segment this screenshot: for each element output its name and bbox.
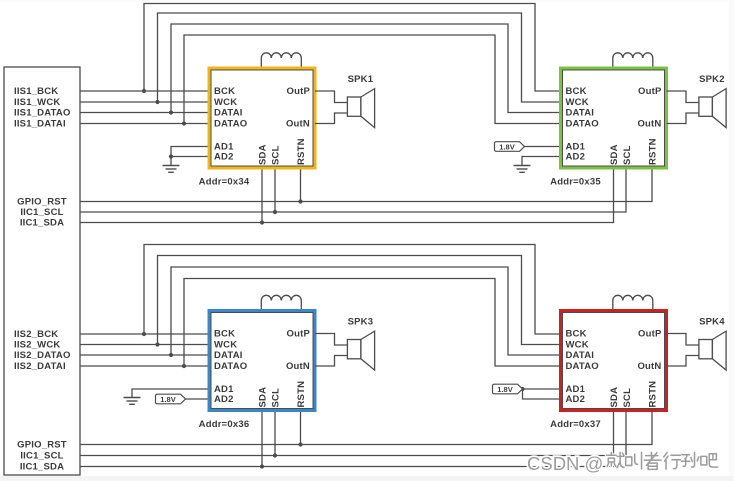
- power flag 1.8V (U2 AD1): [495, 142, 525, 152]
- wire AD2 of U2 to ground: [522, 157, 561, 166]
- wire IIS2_BCK net: [80, 333, 209, 335]
- svg-text:DATAO: DATAO: [566, 119, 599, 130]
- speaker SPK2: [699, 89, 726, 128]
- svg-text:AD2: AD2: [566, 152, 586, 163]
- power flag 1.8V (U4 AD1/AD2): [493, 384, 523, 394]
- wire OutN of U3 to SPK3: [315, 356, 347, 367]
- svg-text:BCK: BCK: [214, 86, 235, 97]
- amplifier chip U2: [563, 70, 665, 166]
- wire OutP of U4 to SPK4: [667, 334, 699, 346]
- svg-text:SCL: SCL: [622, 145, 633, 165]
- svg-text:IIS2_DATAO: IIS2_DATAO: [14, 350, 71, 361]
- speaker SPK4: [699, 331, 726, 370]
- pin labels of U1: [214, 86, 310, 165]
- junction node IIS1_BCK: [142, 89, 146, 93]
- wire OutN of U2 to SPK2: [667, 113, 699, 124]
- junction node IIC1_SCL: [273, 453, 277, 457]
- svg-text:RSTN: RSTN: [296, 138, 307, 165]
- inductor L3 on U3 OutP/OutN supply: [261, 295, 301, 310]
- pin labels of U4: [566, 329, 662, 408]
- junction node IIS1_WCK: [155, 100, 159, 104]
- svg-text:IIC1_SCL: IIC1_SCL: [20, 207, 63, 218]
- pin labels of U2: [566, 86, 662, 165]
- svg-text:AD2: AD2: [214, 152, 234, 163]
- ground symbol (U3 AD1): [124, 398, 141, 405]
- junction node IIC1_SDA: [260, 464, 264, 468]
- svg-text:OutP: OutP: [638, 86, 662, 97]
- svg-text:OutN: OutN: [286, 361, 310, 372]
- inductor L4 on U4 OutP/OutN supply: [613, 295, 653, 310]
- wire SDA drop of left chip to IIC1_SDA: [261, 411, 263, 467]
- svg-text:SDA: SDA: [258, 387, 269, 408]
- junction node IIS2_DATAI: [182, 364, 186, 368]
- wire AD1/AD2 of U4 to 1.8V: [523, 389, 561, 399]
- host connector box J1: [4, 67, 80, 475]
- wire RSTN drop of left chip to GPIO_RST: [300, 168, 302, 202]
- svg-text:WCK: WCK: [566, 340, 589, 351]
- svg-text:GPIO_RST: GPIO_RST: [17, 197, 67, 208]
- svg-text:DATAI: DATAI: [214, 350, 243, 361]
- wire OutP of U2 to SPK2: [667, 91, 699, 103]
- svg-text:SPK4: SPK4: [699, 317, 725, 328]
- svg-text:DATAI: DATAI: [214, 108, 243, 119]
- wire IIS2_DATAI branch to right chip: [184, 279, 561, 367]
- svg-text:WCK: WCK: [566, 97, 589, 108]
- svg-text:IIS1_WCK: IIS1_WCK: [14, 97, 60, 108]
- junction node GPIO_RST: [298, 199, 302, 203]
- junction node IIS1_DATAI: [182, 121, 186, 125]
- wire OutN of U4 to SPK4: [667, 356, 699, 367]
- ground symbol (U1 AD pins): [163, 166, 180, 173]
- svg-text:IIS1_DATAO: IIS1_DATAO: [14, 108, 71, 119]
- svg-text:OutP: OutP: [638, 329, 662, 340]
- wire AD1 of U2 to 1.8V: [525, 146, 561, 148]
- svg-text:IIS2_WCK: IIS2_WCK: [14, 340, 60, 351]
- svg-text:BCK: BCK: [214, 329, 235, 340]
- wire IIS1_DATAO net: [80, 112, 209, 114]
- wire IIS1_WCK branch to right chip: [158, 13, 561, 102]
- svg-text:OutP: OutP: [287, 86, 311, 97]
- svg-text:RSTN: RSTN: [648, 138, 659, 165]
- svg-text:DATAI: DATAI: [566, 108, 595, 119]
- wire IIS1_BCK branch to right chip: [144, 4, 561, 92]
- speaker SPK1: [347, 89, 374, 128]
- svg-text:SPK1: SPK1: [348, 74, 374, 85]
- svg-text:Addr=0x35: Addr=0x35: [550, 177, 601, 188]
- svg-text:1.8V: 1.8V: [160, 395, 175, 404]
- svg-text:IIC1_SCL: IIC1_SCL: [20, 451, 63, 462]
- svg-text:Addr=0x34: Addr=0x34: [199, 177, 250, 188]
- junction node IIS2_WCK: [155, 342, 159, 346]
- svg-text:SCL: SCL: [271, 145, 282, 165]
- wire SDA drop of left chip to IIC1_SDA: [261, 168, 263, 223]
- svg-text:Addr=0x37: Addr=0x37: [550, 419, 601, 430]
- svg-text:WCK: WCK: [214, 340, 237, 351]
- inductor L1 on U1 OutP/OutN supply: [261, 53, 301, 68]
- svg-text:OutP: OutP: [287, 329, 311, 340]
- power flag 1.8V (U3 AD2): [156, 394, 186, 404]
- junction U1 AD2: [169, 154, 173, 158]
- svg-text:SDA: SDA: [258, 144, 269, 165]
- svg-text:DATAO: DATAO: [566, 361, 599, 372]
- svg-text:IIS1_DATAI: IIS1_DATAI: [14, 119, 66, 130]
- wire OutN of U1 to SPK1: [315, 113, 347, 124]
- wire AD1/AD2 of U1 to ground: [171, 147, 209, 166]
- wire IIC1_SDA bus: [80, 411, 614, 467]
- junction node IIS2_BCK: [142, 332, 146, 336]
- wire OutP of U1 to SPK1: [315, 91, 347, 103]
- svg-text:CSDN @: CSDN @: [527, 453, 603, 474]
- wire IIS1_DATAI net: [80, 123, 209, 125]
- wire IIS1_WCK net: [80, 101, 209, 103]
- svg-text:RSTN: RSTN: [648, 381, 659, 408]
- wire SCL drop of left chip to IIC1_SCL: [274, 411, 276, 456]
- junction node IIS2_DATAO: [169, 353, 173, 357]
- svg-text:AD2: AD2: [566, 394, 586, 405]
- wire OutP of U3 to SPK3: [315, 334, 347, 346]
- svg-text:IIC1_SDA: IIC1_SDA: [20, 218, 64, 229]
- svg-text:IIS1_BCK: IIS1_BCK: [14, 86, 58, 97]
- svg-text:SCL: SCL: [271, 388, 282, 408]
- wire RSTN drop of left chip to GPIO_RST: [300, 411, 302, 445]
- pin labels of U3: [214, 329, 310, 408]
- junction node IIC1_SDA: [260, 220, 264, 224]
- watermark CSDN @jiujiaozhexingsunba: [607, 452, 718, 469]
- svg-text:GPIO_RST: GPIO_RST: [17, 440, 67, 451]
- J1 signal labels: [14, 86, 71, 473]
- amplifier chip U4: [563, 313, 665, 409]
- wire IIC1_SCL bus: [80, 411, 626, 456]
- wire IIS1_BCK net: [80, 90, 209, 92]
- wire IIS1_DATAO branch to right chip: [171, 24, 561, 113]
- svg-text:IIS2_BCK: IIS2_BCK: [14, 329, 58, 340]
- junction node IIS1_DATAO: [169, 110, 173, 114]
- amplifier chip U3: [211, 313, 313, 409]
- svg-text:DATAO: DATAO: [214, 119, 247, 130]
- wire IIS2_WCK branch to right chip: [158, 256, 561, 345]
- wire SCL drop of left chip to IIC1_SCL: [274, 168, 276, 212]
- wire IIC1_SCL bus: [80, 168, 626, 212]
- wire AD2 of U3 to 1.8V: [186, 398, 210, 400]
- wire IIS2_DATAI net: [80, 365, 209, 367]
- inductor L2 on U2 OutP/OutN supply: [613, 53, 653, 68]
- svg-text:RSTN: RSTN: [296, 381, 307, 408]
- svg-text:BCK: BCK: [566, 329, 587, 340]
- wire IIS1_DATAI branch to right chip: [184, 35, 561, 124]
- ground symbol (U2 AD2): [514, 166, 531, 173]
- wire GPIO_RST bus: [80, 168, 652, 202]
- wire IIS2_DATAO branch to right chip: [171, 267, 561, 355]
- wire IIC1_SDA bus: [80, 168, 614, 223]
- svg-text:SCL: SCL: [622, 388, 633, 408]
- wire GPIO_RST bus: [80, 411, 652, 445]
- wire AD1 of U3 to ground: [132, 389, 209, 398]
- svg-text:SPK2: SPK2: [699, 74, 725, 85]
- svg-text:AD2: AD2: [214, 394, 234, 405]
- svg-text:SPK3: SPK3: [348, 317, 374, 328]
- svg-text:OutN: OutN: [286, 119, 310, 130]
- svg-text:DATAI: DATAI: [566, 350, 595, 361]
- svg-text:DATAO: DATAO: [214, 361, 247, 372]
- svg-text:BCK: BCK: [566, 86, 587, 97]
- svg-text:1.8V: 1.8V: [499, 142, 514, 151]
- svg-text:IIS2_DATAI: IIS2_DATAI: [14, 361, 66, 372]
- svg-text:1.8V: 1.8V: [497, 385, 512, 394]
- wire IIS2_BCK branch to right chip: [144, 245, 561, 335]
- svg-text:WCK: WCK: [214, 97, 237, 108]
- junction node GPIO_RST: [298, 442, 302, 446]
- svg-text:OutN: OutN: [637, 119, 661, 130]
- svg-text:OutN: OutN: [637, 361, 661, 372]
- amplifier chip U1: [211, 70, 313, 166]
- svg-text:Addr=0x36: Addr=0x36: [199, 419, 250, 430]
- wire IIS2_DATAO net: [80, 354, 209, 356]
- svg-text:SDA: SDA: [609, 387, 620, 408]
- junction U4 AD1: [520, 387, 524, 391]
- svg-text:SDA: SDA: [609, 144, 620, 165]
- svg-text:IIC1_SDA: IIC1_SDA: [20, 462, 64, 473]
- junction node IIC1_SCL: [273, 210, 277, 214]
- speaker SPK3: [347, 331, 374, 370]
- wire IIS2_WCK net: [80, 344, 209, 346]
